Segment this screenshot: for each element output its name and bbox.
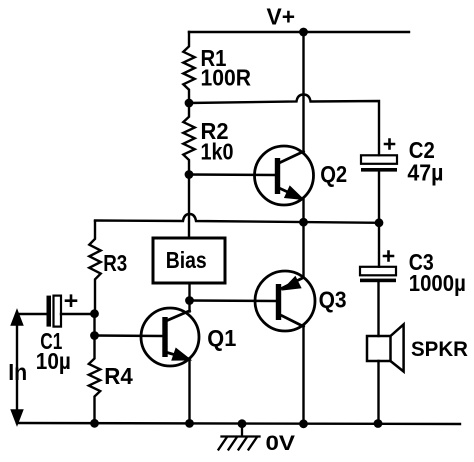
wire Q3 collector down to 0V rail <box>302 327 304 424</box>
wire Bias box to Q1 collector node <box>188 283 190 301</box>
wire second rail with hop over Q2 collector <box>189 95 379 156</box>
wire divider node down <box>93 314 95 336</box>
junction dot output node at Q2/Q3 emitters <box>299 218 308 227</box>
transistor Q1 <box>141 308 199 366</box>
wire Q3 emitter up to output node <box>302 222 304 278</box>
wire output node to C3 top <box>378 222 380 267</box>
input arrow In <box>12 312 22 424</box>
transistor Q2 <box>255 146 314 205</box>
junction dot C1 / R3 / divider <box>90 309 99 318</box>
svg-text:1k0: 1k0 <box>201 139 234 165</box>
svg-text:Q2: Q2 <box>320 161 347 187</box>
junction dot ground tap <box>238 419 247 428</box>
svg-text:1000µ: 1000µ <box>409 270 466 296</box>
wire top V+ rail <box>189 31 409 33</box>
wire C3 bottom to speaker <box>377 282 379 336</box>
junction dot R1/R2 <box>185 99 194 108</box>
wire Q2 emitter down to output node <box>302 199 304 222</box>
component Bias box <box>153 238 225 283</box>
svg-text:Q1: Q1 <box>207 325 236 351</box>
junction dot output node at C2/C3 column <box>375 218 384 227</box>
wire Q1 emitter down to 0V rail <box>188 359 190 424</box>
junction dot R4 bottom <box>90 419 99 428</box>
speaker SPKR <box>367 324 404 371</box>
wire speaker to 0V rail <box>377 361 379 424</box>
capacitor C2 <box>361 140 397 172</box>
svg-text:10µ: 10µ <box>36 348 71 374</box>
wire Q1 base <box>95 334 163 337</box>
wire C1 to bias divider node <box>61 313 95 315</box>
ground symbol <box>219 424 260 450</box>
capacitor C1 <box>47 296 77 327</box>
wire Q1 collector node to Q3 base <box>190 299 277 302</box>
wire Q2 base <box>189 173 275 176</box>
resistor R2 <box>183 103 194 175</box>
svg-text:R3: R3 <box>103 250 127 276</box>
svg-text:SPKR: SPKR <box>411 337 468 361</box>
svg-text:100R: 100R <box>201 65 252 91</box>
junction dot speaker at 0V rail <box>374 419 383 428</box>
wire R3 top to output node with hop over bias line <box>95 214 379 223</box>
capacitor C3 <box>360 252 396 283</box>
transistor Q3 <box>255 271 315 331</box>
wire Q1 collector up to node <box>188 301 190 312</box>
svg-text:0V: 0V <box>266 431 296 455</box>
junction dot Q3 collector at rail <box>299 419 308 428</box>
svg-text:R4: R4 <box>104 363 133 389</box>
resistor R4 <box>89 336 100 424</box>
junction dot Q1 emitter at rail <box>185 419 194 428</box>
wire bottom 0V rail <box>17 423 460 424</box>
resistor R1 <box>183 32 194 104</box>
svg-text:V+: V+ <box>267 4 296 30</box>
svg-text:Q3: Q3 <box>319 287 347 313</box>
wire C2 bottom to output node <box>378 172 380 222</box>
wire input to C1 <box>17 313 47 315</box>
svg-text:47µ: 47µ <box>407 160 443 186</box>
junction dot R2 bottom / Q2 base <box>185 170 194 179</box>
junction dot Q1 collector node <box>185 296 194 305</box>
junction dot on V+ rail <box>299 28 308 37</box>
wire R2 node down to Bias box <box>188 175 190 239</box>
svg-text:In: In <box>8 359 27 385</box>
junction dot Q1 base node <box>90 331 99 340</box>
resistor R3 <box>89 222 100 314</box>
svg-text:Bias: Bias <box>166 247 207 273</box>
wire Q2 collector to V+ rail <box>302 32 304 152</box>
